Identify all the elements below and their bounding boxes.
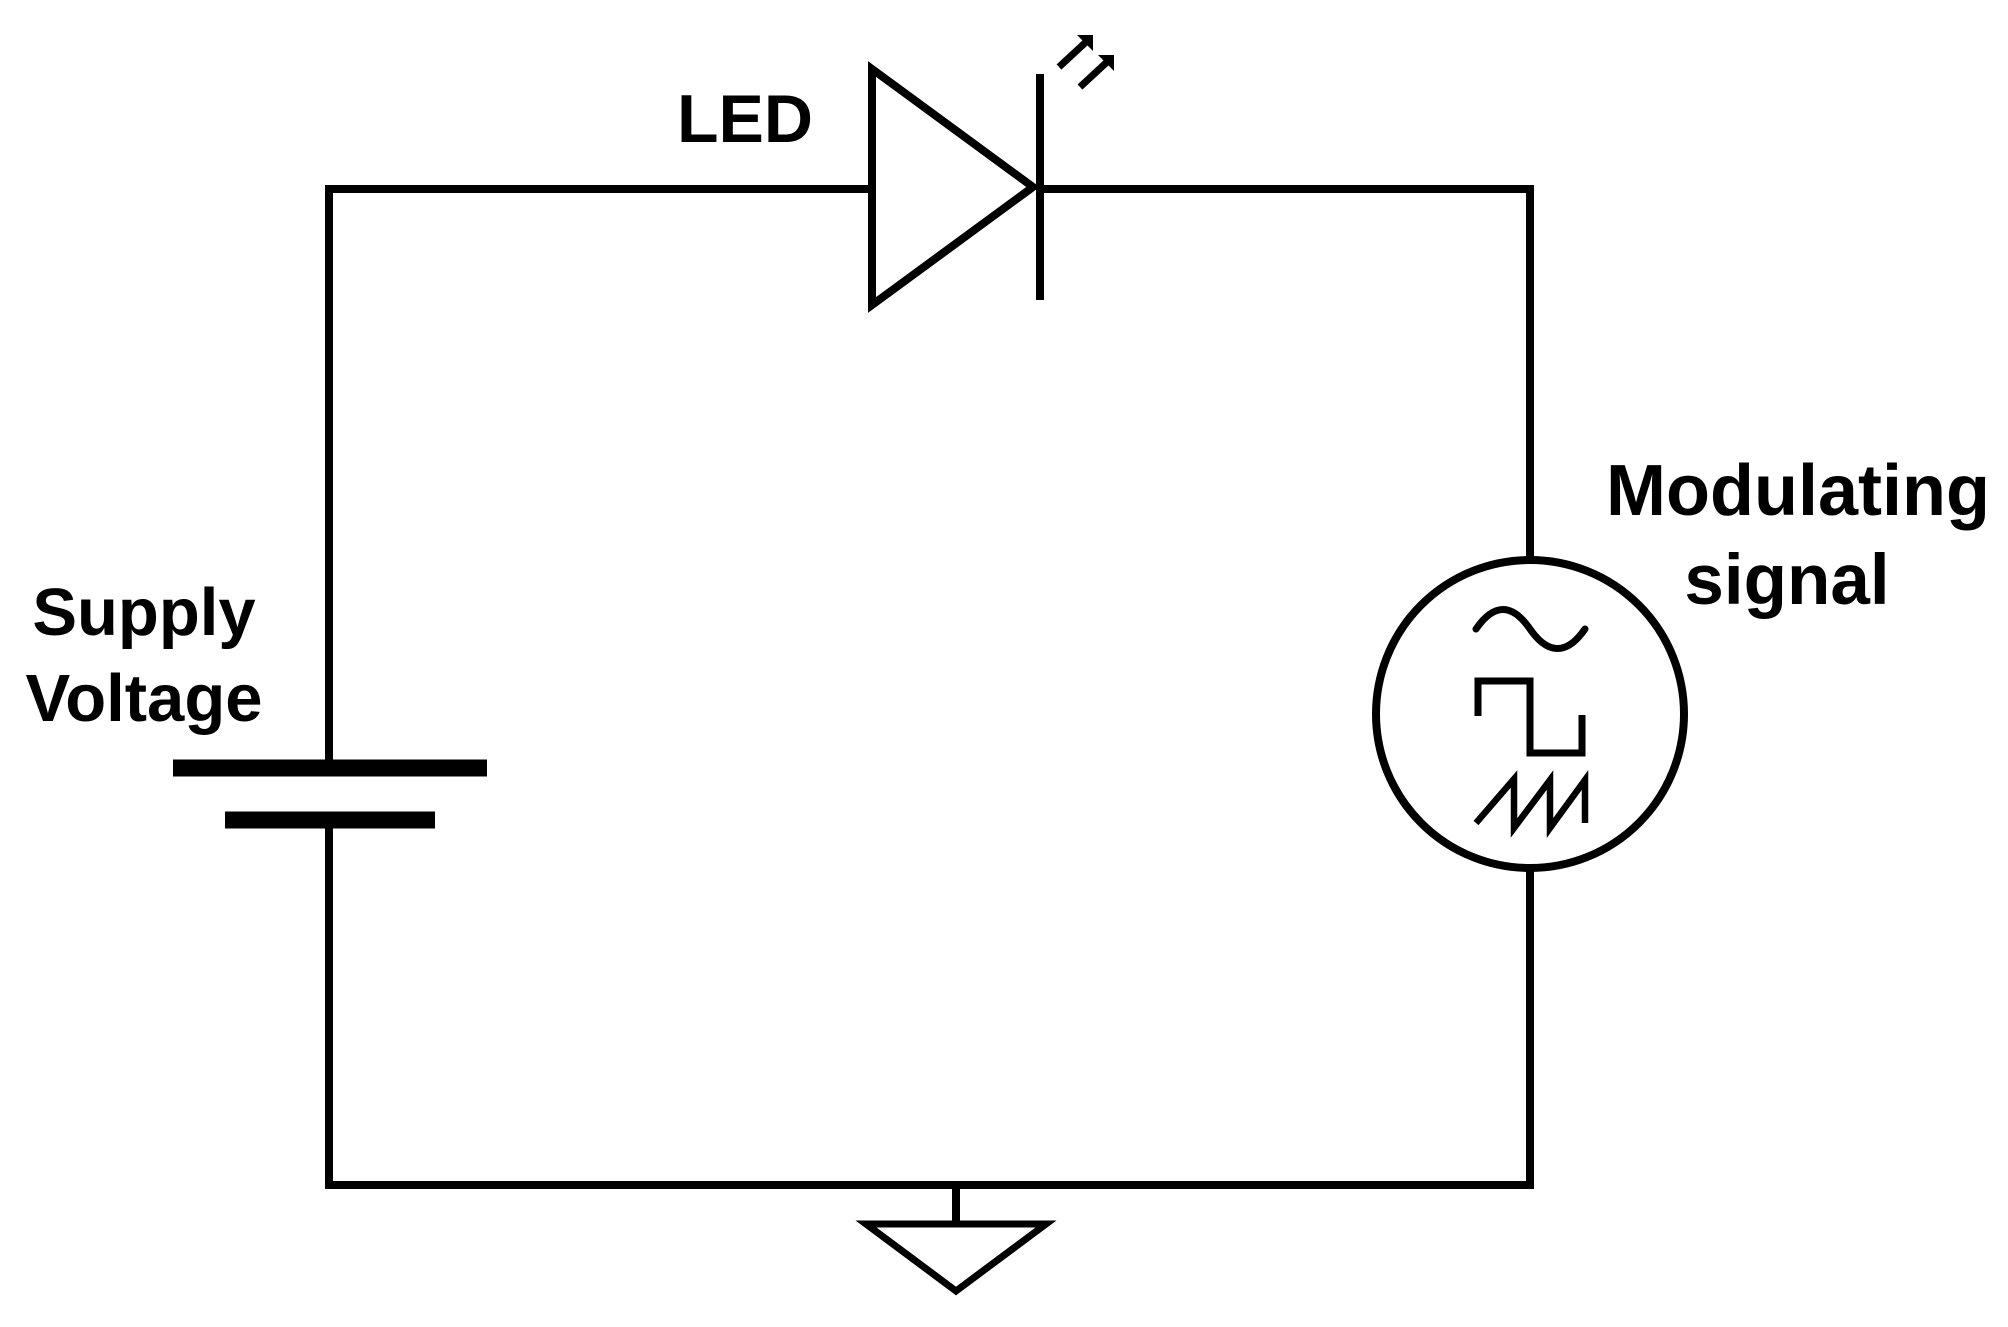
wire top-right segment: [1040, 185, 1534, 193]
svg-text:Supply: Supply: [32, 575, 255, 650]
wire bottom: [325, 1181, 1534, 1189]
svg-text:Voltage: Voltage: [25, 661, 262, 736]
battery BT1 positive plate (long): [173, 760, 487, 777]
LED light arrow 1: [1059, 35, 1093, 67]
LED D1 triangle (anode): [872, 69, 1033, 305]
LED cathode bar: [1036, 74, 1044, 300]
wire left lower (battery -): [325, 826, 333, 1189]
wire right lower: [1526, 866, 1534, 1189]
ground stub wire: [952, 1185, 960, 1223]
square wave glyph: [1478, 681, 1582, 753]
svg-text:signal: signal: [1684, 541, 1889, 620]
sine wave glyph: [1476, 610, 1585, 649]
wire top-left segment: [325, 185, 874, 193]
ground symbol: [866, 1224, 1046, 1291]
wire left upper (battery +): [325, 185, 333, 762]
svg-text:Modulating: Modulating: [1606, 451, 1990, 531]
sawtooth wave glyph: [1476, 779, 1585, 828]
battery BT1 negative plate (short): [225, 812, 435, 829]
wire right upper: [1526, 185, 1534, 562]
LED light arrow 2: [1080, 55, 1114, 87]
signal source V1 circle: [1376, 560, 1684, 868]
svg-text:LED: LED: [677, 81, 813, 157]
